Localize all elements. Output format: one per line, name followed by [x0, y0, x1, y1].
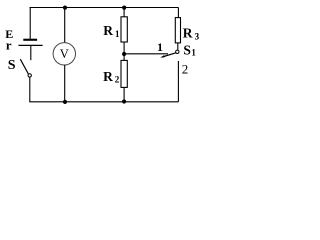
node dot: bottom R branch junction: [122, 99, 126, 103]
svg-text:2: 2: [115, 74, 120, 84]
resistor R3 body: [175, 18, 180, 43]
wire: bottom horizontal bus: [29, 101, 178, 103]
wire: between R1 and R2: [123, 42, 125, 60]
svg-text:R: R: [103, 69, 113, 84]
node dot: middle junction between R1 and R2: [122, 52, 126, 56]
svg-text:1: 1: [191, 48, 196, 58]
svg-text:1: 1: [157, 40, 163, 54]
svg-text:R: R: [183, 25, 193, 40]
svg-text:V: V: [60, 47, 69, 61]
wire: voltmeter branch upper: [64, 8, 66, 43]
wire: right branch upper (to R3): [177, 8, 179, 18]
wire: R3 to S1 pivot stub: [177, 43, 179, 50]
wire: contact 2 vertical: [177, 61, 179, 102]
node dot: bottom voltmeter junction: [63, 100, 67, 104]
svg-text:3: 3: [195, 32, 200, 42]
switch S blade (open): [20, 59, 28, 74]
wire: below R2 to bottom bus: [123, 87, 125, 101]
resistor R1 body: [121, 17, 127, 42]
battery E,r : short thick plate: [23, 39, 37, 41]
wire: left branch upper (to battery): [29, 8, 31, 39]
svg-text:r: r: [6, 37, 12, 52]
wire: battery to switch stub: [30, 45, 32, 60]
svg-text:S: S: [8, 58, 16, 73]
wire: top horizontal bus: [30, 7, 179, 9]
svg-text:1: 1: [115, 29, 120, 39]
wire: R branch top stub: [123, 8, 125, 17]
node dot: top R branch junction: [122, 6, 126, 10]
svg-text:2: 2: [182, 61, 189, 76]
resistor R2 body: [121, 60, 127, 87]
svg-text:R: R: [103, 23, 113, 38]
switch S1 pivot circle: [176, 50, 179, 53]
wire: voltmeter branch lower: [64, 65, 66, 102]
voltmeter V circle: [53, 43, 75, 65]
switch S1 blade with arrow tip: [162, 53, 176, 57]
svg-text:S: S: [183, 43, 191, 58]
battery E,r : long thin plate: [19, 44, 43, 46]
wire: middle horizontal to contact 1: [124, 53, 168, 55]
node dot: top voltmeter junction: [63, 6, 67, 10]
wire: below switch to bottom bus: [29, 77, 31, 102]
switch S pivot circle: [28, 74, 31, 77]
